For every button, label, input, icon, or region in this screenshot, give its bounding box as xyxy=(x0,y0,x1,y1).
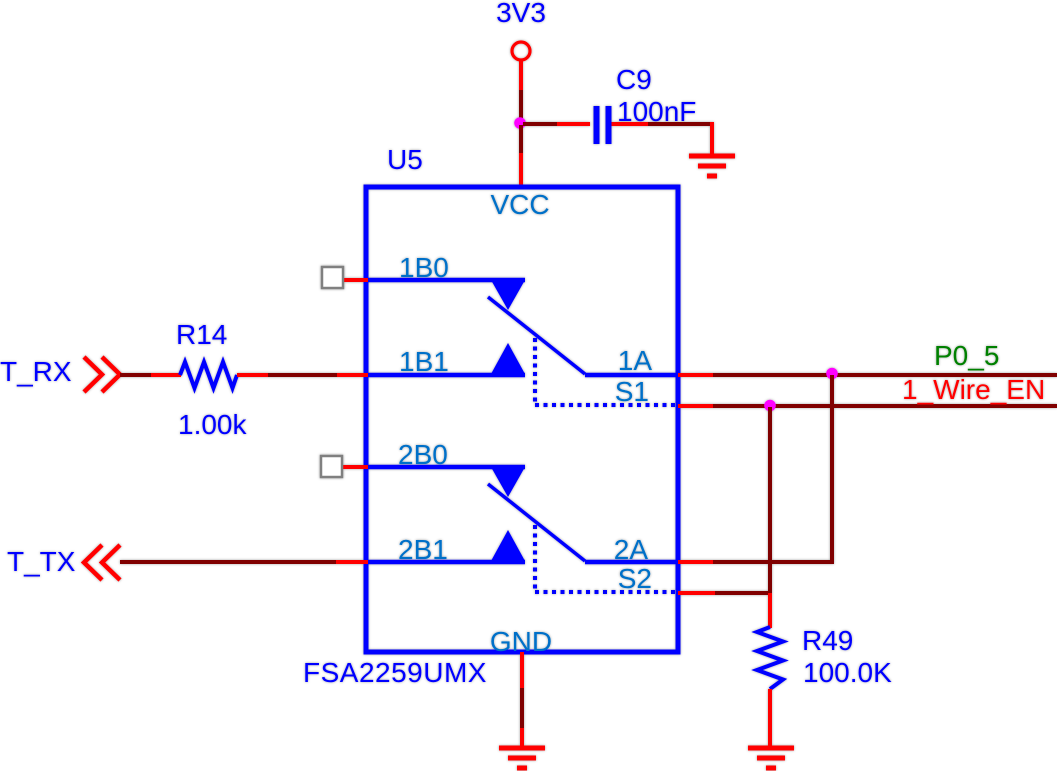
wire 2A to vertical xyxy=(713,560,834,564)
part number FSA2259UMX xyxy=(303,657,487,688)
capacitor C9 xyxy=(597,106,609,144)
designator C9 xyxy=(616,64,652,95)
svg-text:3V3: 3V3 xyxy=(496,0,546,28)
svg-text:1.00k: 1.00k xyxy=(178,409,247,440)
switch 1 contact triangle 1B0 xyxy=(491,280,525,310)
wire 3V3 circle to junction (vertical) xyxy=(519,61,523,123)
pin VCC name xyxy=(490,189,549,220)
wire junction down to S2 row xyxy=(768,407,772,593)
pin stub S1 xyxy=(678,404,713,408)
svg-text:U5: U5 xyxy=(387,144,423,175)
wire junction to C9 left pin xyxy=(523,122,590,126)
svg-text:T_TX: T_TX xyxy=(7,546,76,577)
junction node on 1A wire xyxy=(826,368,838,380)
port T_TX label xyxy=(7,546,76,577)
pin stub 2B1 xyxy=(336,560,368,564)
wire S2 to vertical xyxy=(715,591,770,595)
value 100nF xyxy=(617,96,696,127)
switch 2 contact triangle 2B0 xyxy=(491,467,525,497)
switch 1 line from 1B1 xyxy=(368,373,525,378)
resistor R49 xyxy=(757,627,783,689)
svg-text:100.0K: 100.0K xyxy=(803,657,892,688)
svg-text:T_RX: T_RX xyxy=(0,356,72,387)
pin stub 2B0 xyxy=(343,465,368,469)
pin stub 1A xyxy=(678,373,713,377)
designator R14 xyxy=(176,319,227,350)
svg-text:1_Wire_EN: 1_Wire_EN xyxy=(902,374,1045,405)
port T_TX chevrons xyxy=(84,545,120,580)
pin 1B0 name xyxy=(399,252,449,283)
ground symbol (R49) xyxy=(748,748,794,768)
unconnected pin box 2B0 xyxy=(321,456,342,477)
resistor R14 xyxy=(180,362,237,388)
wire down to R49 xyxy=(768,593,772,628)
wire T_RX to R14 xyxy=(120,373,181,377)
wire R49 to ground xyxy=(768,689,772,748)
designator U5 xyxy=(387,144,423,175)
pin stub 1B0 xyxy=(343,278,368,282)
wire C9 right pin to ground xyxy=(612,122,713,156)
switch 2 control dotted line from S2 xyxy=(535,525,678,592)
switch 2 line from 2B1 xyxy=(368,560,525,565)
value 100.0K xyxy=(803,657,892,688)
svg-text:1A: 1A xyxy=(618,345,653,376)
pin 2A name xyxy=(614,534,649,565)
junction node on S1 wire xyxy=(764,400,776,412)
svg-text:R14: R14 xyxy=(176,319,227,350)
svg-text:S2: S2 xyxy=(618,563,652,594)
pin stub S2 xyxy=(678,591,715,595)
switch 2 line from 2B0 xyxy=(368,465,525,470)
svg-text:R49: R49 xyxy=(802,625,853,656)
switch 1 contact triangle 1B1 xyxy=(491,343,525,374)
wire S1 to right edge (net 1_Wire_EN) xyxy=(713,404,1057,408)
svg-text:FSA2259UMX: FSA2259UMX xyxy=(303,657,487,688)
pin 1A name xyxy=(618,345,653,376)
switch 1 control dotted line from S1 xyxy=(535,338,678,405)
svg-text:VCC: VCC xyxy=(490,189,549,220)
wire T_TX to pin 2B1 xyxy=(120,560,336,564)
unconnected pin box 1B0 xyxy=(322,267,343,288)
switch 1 line from 1B0 xyxy=(368,278,525,283)
switch 2 arm xyxy=(488,484,585,561)
designator R49 xyxy=(802,625,853,656)
svg-text:1B1: 1B1 xyxy=(399,346,449,377)
port T_RX label xyxy=(0,356,72,387)
ground symbol (C9) xyxy=(689,156,735,176)
net label P0_5 xyxy=(934,340,999,371)
power port 3V3 label xyxy=(496,0,546,28)
switch 1 arm xyxy=(488,297,585,374)
net label 1_Wire_EN xyxy=(902,374,1045,405)
value 1.00k xyxy=(178,409,247,440)
pin S1 name xyxy=(615,376,649,407)
ground symbol (U5 GND) xyxy=(499,748,545,768)
pin 2B0 name xyxy=(398,439,448,470)
pin stub 2A xyxy=(678,560,713,564)
wire GND pin to ground xyxy=(520,652,524,748)
power port 3V3 terminal circle xyxy=(512,42,530,60)
svg-text:P0_5: P0_5 xyxy=(934,340,999,371)
pin 1B1 name xyxy=(399,346,449,377)
wire junction down to 2A row xyxy=(830,375,834,562)
port T_RX chevrons xyxy=(84,357,120,392)
pin stub 1B1 xyxy=(337,373,368,377)
junction node on VCC rail xyxy=(514,117,526,129)
pin S2 name xyxy=(618,563,652,594)
pin GND name xyxy=(490,626,552,657)
wire 1A to right edge (net P0_5) xyxy=(713,373,1057,377)
switch 1 line to 1A xyxy=(585,373,678,378)
wire R14 to pin 1B1 xyxy=(237,373,337,377)
switch 2 line to 2A xyxy=(585,560,678,565)
switch 2 contact triangle 2B1 xyxy=(491,530,525,561)
svg-text:S1: S1 xyxy=(615,376,649,407)
pin 2B1 name xyxy=(398,534,448,565)
svg-text:C9: C9 xyxy=(616,64,652,95)
IC U5 body xyxy=(366,187,678,652)
wire junction to VCC pin of U5 xyxy=(519,125,523,187)
